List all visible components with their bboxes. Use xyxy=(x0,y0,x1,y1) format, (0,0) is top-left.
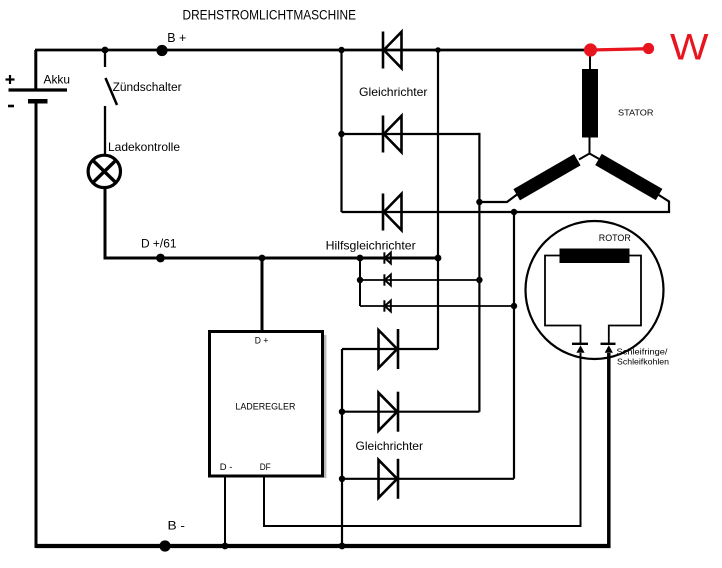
wire lamp to D+/61 xyxy=(104,188,107,259)
junction dot B+ / switch xyxy=(102,47,109,54)
switch Zündschalter xyxy=(105,50,117,105)
stator winding U bar xyxy=(513,154,580,200)
junction dot phase3 row3 xyxy=(511,209,517,215)
diode D1 xyxy=(383,32,402,69)
wire stator lead W xyxy=(658,195,669,213)
wire phase2 vertical xyxy=(478,133,480,412)
rotor coil outline xyxy=(545,256,641,344)
stator winding V bar xyxy=(582,69,598,138)
red terminal dot 1 xyxy=(584,43,597,56)
wire D+/61 horizontal xyxy=(104,257,439,260)
svg-text:Hilfsgleichrichter: Hilfsgleichrichter xyxy=(326,239,416,253)
regulator box shadow xyxy=(324,335,327,478)
wire lower row2 xyxy=(342,411,479,413)
terminal dot B- xyxy=(159,540,170,551)
aux diode AD2 xyxy=(384,274,390,285)
wire B- bottom xyxy=(36,544,611,548)
svg-text:DF: DF xyxy=(260,462,271,472)
battery Akku negative plate xyxy=(28,99,48,104)
svg-text:Gleichrichter: Gleichrichter xyxy=(359,85,428,99)
battery plus sign xyxy=(6,75,15,84)
diode D5 xyxy=(379,392,399,432)
rectifier positive bus xyxy=(340,50,342,212)
diode D2 xyxy=(383,116,402,153)
wire rectifier row3 xyxy=(342,211,671,213)
svg-text:D +: D + xyxy=(255,336,268,346)
wire battery positive vertical xyxy=(34,50,37,90)
junction dot bus row2 xyxy=(338,131,344,137)
junction dot phase1 D+ xyxy=(435,255,442,262)
svg-text:Zündschalter: Zündschalter xyxy=(113,82,182,94)
diode D3 xyxy=(383,194,402,231)
wire aux row3 xyxy=(360,305,514,307)
regulator box LADEREGLER xyxy=(210,332,323,477)
svg-text:D +/61: D +/61 xyxy=(141,237,177,251)
wire lower row1 xyxy=(342,348,438,350)
junction dot aux bus xyxy=(357,255,364,262)
wire DF to left brush xyxy=(264,353,581,526)
aux rectifier bus xyxy=(359,258,361,306)
svg-text:B -: B - xyxy=(168,519,186,533)
svg-text:B +: B + xyxy=(167,31,186,45)
wire battery negative vertical xyxy=(35,101,38,548)
svg-text:Ladekontrolle: Ladekontrolle xyxy=(108,140,180,154)
slip ring right xyxy=(601,343,616,345)
stator winding W bar xyxy=(595,154,662,200)
rectifier negative bus xyxy=(341,349,343,546)
junction dot phase2 stator tap xyxy=(476,199,482,205)
svg-text:W: W xyxy=(670,27,709,68)
wire lower row3 xyxy=(342,478,514,480)
aux diode AD3 xyxy=(384,300,390,311)
junction dot D- on B- xyxy=(222,543,229,550)
battery Akku positive plate xyxy=(9,88,68,91)
wire B- riser to right brush xyxy=(607,353,611,548)
stator star point xyxy=(579,138,600,160)
svg-text:D -: D - xyxy=(220,462,233,472)
battery minus sign xyxy=(8,105,14,108)
wire D- to B- xyxy=(224,476,226,546)
brush left xyxy=(576,345,584,353)
red terminal dot 2 xyxy=(643,43,654,54)
terminal dot D+/61 xyxy=(156,254,165,263)
red wire W xyxy=(591,49,649,50)
diode D4 xyxy=(379,329,399,369)
wire D+ to regulator xyxy=(261,258,264,332)
slip ring left xyxy=(572,343,588,345)
svg-text:STATOR: STATOR xyxy=(618,108,654,118)
diode D6 xyxy=(379,459,399,499)
svg-text:Akku: Akku xyxy=(44,73,71,87)
svg-text:DREHSTROMLICHTMASCHINE: DREHSTROMLICHTMASCHINE xyxy=(183,8,357,23)
junction dot lower bus on B- xyxy=(339,543,346,550)
rotor circle xyxy=(526,221,664,359)
junction dot neg bus row2 xyxy=(339,409,345,415)
svg-text:Schleifkohlen: Schleifkohlen xyxy=(617,357,669,367)
svg-text:Schleifringe/: Schleifringe/ xyxy=(617,347,669,357)
rotor field winding bar xyxy=(560,249,630,264)
wire phase3 vertical xyxy=(513,212,515,479)
wire B+ top horizontal xyxy=(35,49,591,52)
wire aux row2 xyxy=(360,279,479,281)
junction dot aux row3 right xyxy=(511,303,517,309)
wire switch to lamp xyxy=(104,106,106,155)
terminal dot B+ xyxy=(156,45,167,56)
junction dot aux row2 left xyxy=(357,277,363,283)
brush right xyxy=(605,345,613,353)
wire rectifier row2 xyxy=(342,133,480,135)
wire stator lead U xyxy=(479,195,517,203)
svg-text:Gleichrichter: Gleichrichter xyxy=(356,439,424,453)
junction dot regulator branch xyxy=(259,255,266,262)
wire phase1 vertical xyxy=(437,50,439,349)
wire stator V stub xyxy=(589,50,591,70)
junction dot phase1 top xyxy=(435,47,441,53)
lamp Ladekontrolle xyxy=(88,155,120,187)
junction dot neg bus row3 xyxy=(339,476,345,482)
svg-text:ROTOR: ROTOR xyxy=(599,233,631,243)
aux diode AD1 xyxy=(384,252,390,263)
junction dot aux row2 right xyxy=(476,277,482,283)
junction dot bus on B+ xyxy=(338,47,344,53)
svg-text:LADEREGLER: LADEREGLER xyxy=(235,402,295,412)
